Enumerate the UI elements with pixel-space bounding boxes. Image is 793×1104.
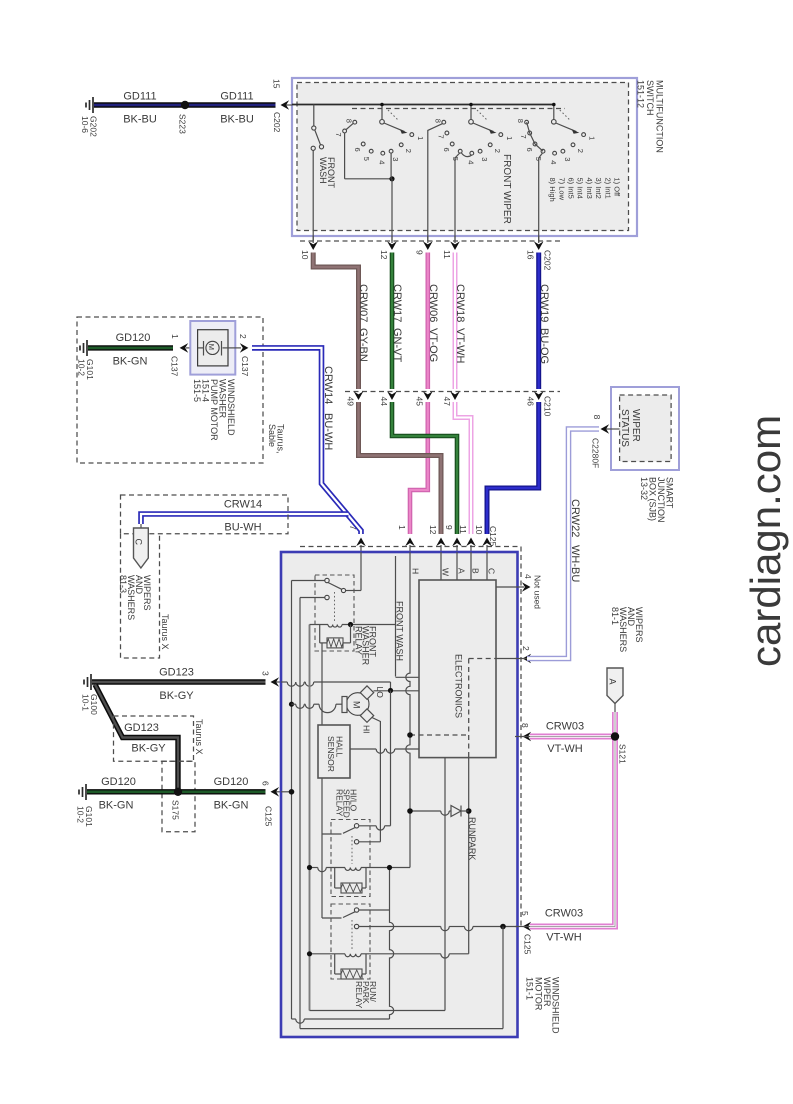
svg-text:10-2: 10-2 — [76, 359, 86, 376]
connector C210 dashed line — [345, 391, 560, 393]
connector C210 pin 49 — [354, 391, 364, 400]
connector C125 pin 7 — [356, 538, 366, 547]
windshield washer pump motor dashed box — [77, 317, 263, 463]
svg-text:HI: HI — [361, 725, 371, 734]
wire CRW18 VT-WH lower — [455, 402, 471, 534]
svg-text:12: 12 — [428, 525, 438, 535]
svg-text:46: 46 — [526, 397, 536, 407]
svg-text:6: 6 — [442, 148, 451, 152]
electronics dashed wire to H rail — [410, 734, 469, 736]
wire relay drive rail — [321, 643, 323, 918]
svg-text:LO: LO — [375, 687, 385, 699]
wire CRW03 VT-WH vertical — [530, 712, 615, 927]
connector C125 right dashed line — [520, 547, 522, 927]
stub pin 8 — [515, 736, 530, 738]
svg-text:BK-BU: BK-BU — [123, 114, 157, 126]
svg-text:3) Int2: 3) Int2 — [594, 178, 603, 199]
connector C202 pin 10 — [312, 236, 314, 243]
connector C137 pin 1 arrow — [180, 343, 189, 353]
svg-text:4: 4 — [523, 574, 533, 579]
svg-text:2: 2 — [238, 334, 248, 339]
svg-text:CRW17: CRW17 — [391, 284, 403, 322]
svg-text:SWITCH: SWITCH — [645, 80, 655, 116]
mechanical link dashed line — [352, 108, 565, 110]
svg-text:RUNPARK: RUNPARK — [467, 817, 477, 860]
wire CRW17 GN-VT upper — [390, 253, 395, 390]
svg-text:4: 4 — [377, 160, 386, 164]
svg-text:3: 3 — [563, 157, 572, 161]
splice S121 — [611, 732, 619, 740]
washer pump motor box — [190, 321, 235, 375]
wire CRW19 BU-OG upper — [536, 253, 541, 390]
run/park relay coil row — [310, 953, 346, 955]
svg-text:151-12: 151-12 — [636, 80, 646, 108]
connector C202 pin 9 — [427, 236, 429, 243]
connector C210 pin 47 — [450, 391, 460, 400]
svg-text:S175: S175 — [170, 800, 180, 820]
wire hall rail — [309, 625, 311, 1011]
connector C202 dashed line — [300, 240, 560, 242]
hi/lo relay resistor — [334, 868, 336, 889]
svg-text:1: 1 — [416, 136, 425, 140]
svg-text:1) Off: 1) Off — [613, 178, 622, 198]
wire left rail 1 — [291, 581, 293, 1020]
wire CRW19 BU-OG lower — [487, 402, 539, 534]
svg-text:10-6: 10-6 — [80, 116, 90, 133]
svg-text:Not used: Not used — [532, 575, 542, 609]
svg-text:CRW07: CRW07 — [357, 284, 369, 322]
svg-text:81-1: 81-1 — [610, 607, 620, 625]
svg-text:S121: S121 — [617, 744, 627, 764]
svg-text:WH-BU: WH-BU — [569, 545, 581, 582]
connector C125 pin 10 — [482, 538, 492, 547]
rotary switch cluster C — [553, 105, 555, 120]
front washer relay switch — [325, 578, 329, 582]
wire pin 4 not used — [495, 586, 497, 588]
svg-text:C125: C125 — [522, 934, 532, 955]
svg-text:44: 44 — [379, 397, 389, 407]
svg-text:M: M — [352, 701, 362, 709]
connector C125 pin 5 arrow — [523, 922, 532, 932]
run/park relay NC wire to pin 5 — [359, 926, 441, 928]
front wash line — [395, 556, 397, 677]
svg-text:151-1: 151-1 — [525, 977, 535, 1000]
svg-text:GD120: GD120 — [214, 776, 249, 788]
svg-text:CRW14: CRW14 — [224, 499, 262, 511]
svg-text:4) Int3: 4) Int3 — [585, 178, 594, 199]
svg-text:Taurus X: Taurus X — [194, 719, 204, 755]
svg-text:BK-GY: BK-GY — [159, 690, 194, 702]
svg-text:3: 3 — [480, 157, 489, 161]
svg-text:GD120: GD120 — [116, 332, 151, 344]
svg-text:5: 5 — [362, 157, 371, 161]
svg-text:GD111: GD111 — [220, 91, 253, 103]
svg-text:CRW03: CRW03 — [545, 908, 583, 920]
svg-text:5: 5 — [520, 911, 530, 916]
svg-text:VT-WH: VT-WH — [547, 743, 582, 755]
connector C125 pin 1 — [405, 538, 415, 547]
svg-text:C210: C210 — [542, 396, 552, 417]
svg-text:10-2: 10-2 — [75, 806, 85, 823]
ground G101 upper — [86, 340, 88, 356]
connector C210 pin 46 — [534, 391, 544, 400]
connector C210 pin 44 — [387, 391, 397, 400]
wire LO rail down — [390, 691, 392, 826]
svg-text:BK-GN: BK-GN — [99, 800, 134, 812]
electronics box — [419, 580, 496, 758]
svg-text:BU-WH: BU-WH — [224, 522, 261, 534]
motor HI brush — [360, 709, 373, 722]
svg-text:1: 1 — [588, 136, 597, 140]
svg-text:9: 9 — [415, 250, 425, 255]
svg-text:SENSOR: SENSOR — [326, 736, 336, 772]
splice S223 — [181, 101, 189, 109]
svg-text:6) Int5: 6) Int5 — [567, 178, 576, 199]
svg-text:6: 6 — [260, 781, 270, 786]
svg-text:47: 47 — [442, 397, 452, 407]
svg-text:8: 8 — [516, 119, 525, 123]
svg-text:2) Int1: 2) Int1 — [603, 178, 612, 199]
dashed box around CRW14 label — [121, 495, 289, 534]
dashed box Taurus X around GD123 branch — [114, 716, 194, 761]
svg-text:GD123: GD123 — [124, 722, 159, 734]
svg-text:ELECTRONICS: ELECTRONICS — [454, 654, 464, 718]
front washer relay coil — [310, 624, 329, 626]
svg-text:H: H — [410, 568, 420, 574]
svg-text:BK-BU: BK-BU — [220, 114, 254, 126]
ground G101 lower — [85, 784, 87, 800]
svg-text:VT-WH: VT-WH — [454, 328, 466, 363]
svg-text:15: 15 — [271, 79, 281, 89]
connector C125 pin 11 — [466, 538, 476, 547]
svg-text:7: 7 — [436, 135, 445, 139]
motor common wire — [292, 703, 296, 705]
front washer relay switch feed — [292, 580, 325, 582]
run/park relay common wire — [359, 909, 390, 911]
off-page connector C — [140, 524, 142, 528]
ground G202 — [92, 97, 94, 113]
svg-text:1: 1 — [397, 525, 407, 530]
cluster 1 contact 8 to 7 link — [346, 123, 353, 129]
cluster 1 contact 3 wire to pin 12 — [390, 153, 392, 179]
svg-text:WIPER: WIPER — [630, 409, 641, 442]
smart junction box — [611, 387, 679, 470]
svg-text:C202: C202 — [542, 250, 552, 271]
svg-text:S223: S223 — [177, 114, 187, 134]
connector C125 pin 9 — [452, 538, 462, 547]
svg-text:STATUS: STATUS — [619, 409, 630, 447]
bottom bus 1 — [310, 1010, 446, 1012]
wire hall sensor to electronics — [350, 748, 376, 750]
wire HI rail down — [372, 718, 380, 842]
svg-text:GD120: GD120 — [101, 776, 136, 788]
connector C137 pin 2 arrow — [228, 347, 241, 349]
connector C202 pin 15 arrow — [283, 104, 292, 106]
cluster 2 contact 8 wire to pin 9 — [428, 124, 443, 241]
hall sensor box — [318, 725, 350, 778]
run park rail — [390, 868, 394, 1020]
svg-text:81-3: 81-3 — [118, 575, 128, 593]
svg-text:CRW14: CRW14 — [322, 366, 334, 404]
hi/lo relay coil row — [310, 867, 318, 869]
diode RUNPARK — [451, 806, 461, 817]
run/park relay dashed box — [331, 904, 370, 979]
washer pump motor symbol M — [198, 347, 203, 349]
cluster 3 contact 5 wire to pin 16 — [539, 153, 543, 241]
svg-text:1: 1 — [505, 136, 514, 140]
svg-text:5) Int4: 5) Int4 — [576, 178, 585, 199]
svg-text:16: 16 — [526, 250, 536, 260]
svg-text:FRONT WIPER: FRONT WIPER — [501, 154, 512, 224]
bottom bus 3 — [300, 1028, 503, 1030]
svg-text:13-32: 13-32 — [639, 477, 649, 500]
svg-text:3: 3 — [260, 671, 270, 676]
wire CRW14 BU-WH from pump to wiper motor — [252, 348, 361, 534]
connector C202 pin 11 — [454, 236, 456, 243]
wire LO to electronics — [374, 690, 420, 692]
wire CRW07 GY-BN lower — [359, 402, 442, 534]
svg-text:BU-OG: BU-OG — [538, 328, 550, 364]
svg-text:6: 6 — [353, 148, 362, 152]
svg-text:8: 8 — [592, 415, 602, 420]
wire GD111 BK-BU left segment — [94, 102, 276, 107]
svg-text:CRW22: CRW22 — [569, 499, 581, 537]
svg-text:4: 4 — [549, 160, 558, 164]
wire CRW07 GY-BN upper — [313, 253, 358, 390]
hi/lo relay NC wire — [359, 841, 380, 843]
svg-text:3: 3 — [391, 157, 400, 161]
wire CRW03 VT-WH to pin 8 — [530, 734, 615, 740]
svg-text:49: 49 — [345, 397, 355, 407]
svg-text:VT-OG: VT-OG — [427, 328, 439, 362]
off-page connector A — [607, 668, 623, 704]
svg-text:2: 2 — [576, 149, 585, 153]
svg-text:CRW19: CRW19 — [538, 284, 550, 322]
splice S175 — [174, 788, 182, 796]
wire CRW17 GN-VT lower — [392, 402, 457, 534]
front washer relay resistor — [319, 625, 321, 643]
connector C2280F pin 8 — [604, 428, 620, 430]
svg-text:12: 12 — [379, 250, 389, 260]
svg-text:6: 6 — [525, 148, 534, 152]
svg-text:BK-GN: BK-GN — [214, 800, 249, 812]
svg-text:10-1: 10-1 — [80, 694, 90, 711]
motor left brush — [342, 697, 347, 713]
svg-text:9: 9 — [444, 525, 454, 530]
svg-text:45: 45 — [415, 397, 425, 407]
front wash switch — [313, 105, 315, 127]
svg-text:7: 7 — [334, 133, 343, 137]
connector C125 pin 6 arrow — [273, 791, 281, 793]
wire GD120 BK-GN washer — [88, 345, 173, 350]
switch bus wire — [292, 104, 554, 106]
svg-text:B: B — [470, 568, 480, 574]
wire electronics bottom rail — [444, 758, 446, 1011]
svg-text:GD123: GD123 — [159, 667, 194, 679]
svg-text:8: 8 — [344, 119, 353, 123]
svg-text:FRONT WASH: FRONT WASH — [395, 601, 405, 661]
svg-text:RELAY: RELAY — [354, 981, 364, 1009]
svg-text:2: 2 — [493, 149, 502, 153]
run/park relay resistor — [334, 954, 336, 974]
bottom bus 2 — [292, 1018, 296, 1020]
wire CRW14 BU-WH branch to connector C — [141, 514, 349, 524]
multifunction switch box — [292, 78, 637, 236]
wire GD123 BK-GY branch — [95, 685, 178, 790]
svg-text:C2280F: C2280F — [590, 438, 600, 468]
svg-text:11: 11 — [458, 525, 468, 534]
svg-text:C: C — [134, 539, 144, 546]
wire GD123 BK-GY upper — [92, 679, 266, 684]
electronics input stubs H W A B C — [409, 552, 411, 580]
dashed box around connector C — [121, 534, 160, 658]
svg-text:7) Low: 7) Low — [557, 178, 566, 201]
electronics dashed internal vertical — [468, 659, 470, 758]
wire pin 6 internal — [281, 791, 292, 793]
svg-text:C: C — [486, 568, 496, 574]
wire CRW18 VT-WH upper — [453, 253, 458, 390]
connector C125 pin 8 arrow — [523, 732, 532, 742]
svg-text:MULTIFUNCTION: MULTIFUNCTION — [655, 80, 665, 153]
wiper status dashed box — [620, 395, 672, 462]
svg-text:W: W — [440, 568, 450, 576]
svg-text:RELAY: RELAY — [334, 789, 344, 817]
motor LO brush — [360, 686, 373, 699]
wire electronics to diode — [468, 758, 470, 954]
svg-text:M: M — [207, 344, 216, 350]
wire CRW06 VT-OG upper — [425, 253, 430, 390]
svg-text:Taurus X: Taurus X — [160, 614, 170, 650]
connector C125 top dashed line — [300, 546, 521, 548]
svg-text:GY-BN: GY-BN — [357, 328, 369, 362]
svg-text:CRW18: CRW18 — [454, 284, 466, 322]
svg-text:BK-GN: BK-GN — [113, 356, 148, 368]
hi/lo speed relay dashed box — [331, 820, 370, 897]
windshield wiper motor box — [281, 552, 518, 1037]
svg-text:11: 11 — [442, 250, 452, 259]
svg-text:C202: C202 — [272, 112, 282, 133]
svg-text:WASH: WASH — [318, 157, 328, 184]
svg-text:8) High: 8) High — [548, 178, 557, 202]
dashed box around splice S175 — [162, 761, 195, 832]
svg-text:CRW03: CRW03 — [546, 721, 584, 733]
svg-text:1: 1 — [170, 334, 180, 339]
svg-text:C137: C137 — [169, 356, 179, 377]
svg-text:BU-WH: BU-WH — [322, 413, 334, 450]
svg-text:VT-WH: VT-WH — [546, 932, 581, 944]
svg-text:8: 8 — [433, 119, 442, 123]
wire diode row — [410, 810, 441, 812]
svg-text:cardiagn.com: cardiagn.com — [742, 415, 789, 667]
svg-text:A: A — [608, 679, 618, 685]
stub pin 5 — [515, 926, 530, 928]
cluster 1 contact 7 wire to pin 12 — [344, 133, 346, 179]
svg-text:Sable: Sable — [267, 424, 277, 447]
svg-text:RELAY: RELAY — [354, 626, 364, 655]
rotary switch cluster A — [381, 105, 383, 120]
run/park relay switch — [354, 908, 358, 912]
ground G100 — [90, 674, 92, 690]
pin 5 rail down — [502, 927, 504, 1029]
svg-text:BK-GY: BK-GY — [131, 743, 166, 755]
svg-text:A: A — [456, 568, 466, 574]
svg-text:GD111: GD111 — [123, 91, 156, 103]
svg-text:10: 10 — [300, 250, 310, 260]
svg-text:7: 7 — [519, 135, 528, 139]
svg-text:C125: C125 — [263, 806, 273, 827]
svg-text:CRW06: CRW06 — [427, 284, 439, 322]
wire CRW06 VT-OG lower — [410, 402, 428, 534]
connector C210 pin 45 — [423, 391, 433, 400]
hi/lo relay common wire — [359, 825, 376, 827]
wire left rail 2 — [299, 598, 301, 1029]
cluster 2 contact 5 wire to pin 11 — [455, 153, 460, 241]
svg-text:151-5: 151-5 — [192, 379, 202, 402]
multifunction switch inner dashed border — [297, 83, 629, 231]
wire GD120 BK-GN to wiper motor — [87, 789, 266, 794]
svg-text:2: 2 — [521, 646, 531, 651]
connector C125 pin 12 — [436, 538, 446, 547]
connector C125 pin 3 arrow — [273, 681, 281, 683]
wiper motor symbol — [346, 693, 369, 716]
front washer relay dashed box — [315, 575, 354, 651]
svg-text:4: 4 — [466, 160, 475, 164]
electronics dashed wire to pin 2 — [469, 658, 496, 660]
svg-text:C137: C137 — [240, 356, 250, 377]
svg-text:2: 2 — [404, 149, 413, 153]
connector C202 pin 16 — [538, 236, 540, 243]
rotary switch cluster B — [470, 105, 472, 120]
wire pin 3 internal — [281, 681, 287, 683]
connector C125 pin 2 — [523, 654, 532, 664]
hi/lo relay switch — [354, 824, 358, 828]
wire pin 7 internal — [360, 552, 362, 591]
svg-text:10: 10 — [474, 525, 484, 535]
wire H rail — [406, 580, 410, 868]
connector C202 pin 12 — [391, 236, 393, 243]
wire relay drive to run/park — [322, 917, 342, 919]
svg-text:GN-VT: GN-VT — [391, 328, 403, 363]
wire CRW22 WH-BU — [527, 429, 599, 659]
svg-text:8: 8 — [520, 723, 530, 728]
